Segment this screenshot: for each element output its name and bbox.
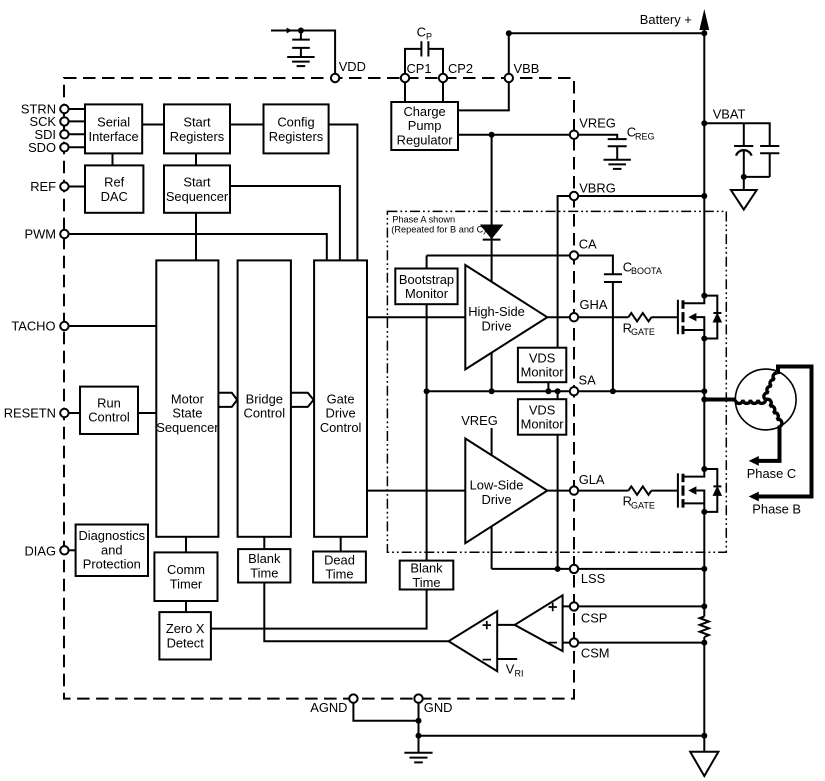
- wire VREG label stub (low-side supply): [461, 413, 498, 569]
- wire gate drive to low-side input: [367, 490, 465, 492]
- block Start Sequencer: [164, 165, 230, 212]
- wire bridge control to blank time: [263, 537, 265, 549]
- svg-text:P: P: [426, 31, 432, 41]
- node CSP: [570, 602, 608, 625]
- wire gate drive to high-side input: [367, 316, 465, 318]
- node VBB: [505, 61, 540, 82]
- motor winding phase B: [764, 373, 778, 400]
- junction dots GND: [416, 718, 708, 739]
- wire Phase C lead with arrow: [747, 426, 796, 482]
- wire CA to CBOOTA: [574, 256, 613, 275]
- diode body (Q1): [704, 296, 721, 339]
- svg-text:Timer: Timer: [170, 576, 203, 591]
- svg-text:VDS: VDS: [529, 350, 556, 365]
- svg-text:GATE: GATE: [631, 501, 655, 511]
- block Bootstrap Monitor: [395, 269, 457, 305]
- svg-text:VREG: VREG: [461, 413, 498, 428]
- svg-text:REG: REG: [635, 131, 655, 141]
- wire VREG from charge pump: [458, 134, 574, 136]
- svg-text:Time: Time: [250, 566, 278, 581]
- wire CSM line: [563, 642, 705, 644]
- wire zero x detect to phase blank time: [211, 590, 427, 629]
- capacitor CBOOTA: [604, 274, 622, 391]
- ground triangle (power): [690, 752, 718, 776]
- node VDD: [331, 59, 366, 82]
- svg-text:Drive: Drive: [481, 319, 511, 334]
- charge pump regulator U: [391, 102, 458, 150]
- block Blank Time phase: [400, 561, 454, 590]
- svg-text:Comm: Comm: [167, 562, 205, 577]
- svg-text:Regulator: Regulator: [397, 133, 454, 148]
- ground (GND): [404, 753, 432, 763]
- capacitor bulk ceramic: [760, 146, 779, 177]
- wire A1 output to A2 input: [497, 624, 515, 626]
- wire STRN lead: [64, 108, 85, 110]
- svg-text:Interface: Interface: [89, 129, 139, 144]
- junction dots sense lines: [701, 603, 707, 645]
- svg-text:Phase A shown: Phase A shown: [392, 215, 455, 225]
- block Ref DAC: [85, 165, 143, 212]
- pin SDI: [35, 127, 69, 142]
- svg-text:Pump: Pump: [408, 118, 442, 133]
- svg-text:CP2: CP2: [448, 61, 473, 76]
- block Comm Timer: [154, 552, 217, 601]
- wire GLA line with resistor RGATE: [547, 486, 677, 494]
- svg-text:Start: Start: [183, 175, 211, 190]
- wire caps common to ground: [741, 174, 770, 190]
- svg-text:SDO: SDO: [28, 140, 56, 155]
- wire CP1 stub: [404, 78, 406, 102]
- svg-text:DAC: DAC: [101, 189, 128, 204]
- svg-text:Charge: Charge: [403, 104, 445, 119]
- block Serial Interface: [85, 104, 142, 153]
- pin RESETN: [4, 406, 69, 421]
- wire VREG to CREG cap: [574, 135, 617, 139]
- wire rail below Q2: [703, 512, 705, 617]
- node CA: [570, 237, 597, 260]
- wire SCK lead: [64, 120, 85, 122]
- wire start registers to start sequencer: [195, 153, 197, 165]
- svg-text:Phase C: Phase C: [747, 466, 796, 481]
- wire rail to bottom ground: [703, 637, 705, 752]
- svg-text:Start: Start: [183, 115, 211, 130]
- wire bootstrap monitor / blank time vertical: [426, 256, 428, 561]
- node VBRG: [570, 181, 616, 201]
- svg-text:Drive: Drive: [481, 492, 511, 507]
- svg-text:High-Side: High-Side: [468, 304, 525, 319]
- svg-text:VBRG: VBRG: [579, 181, 616, 196]
- pin STRN: [21, 102, 69, 117]
- wire config registers to gate drive control: [329, 125, 358, 261]
- junction dots battery rail: [506, 30, 708, 36]
- node GLA: [570, 472, 605, 495]
- svg-text:Gate: Gate: [327, 391, 355, 406]
- wire GND to power ground rail: [419, 735, 705, 737]
- wire VDS monitor 2 to LSS: [557, 435, 559, 569]
- svg-text:SA: SA: [579, 373, 597, 388]
- wire DIAG lead: [64, 549, 75, 551]
- wire VRI reference: [497, 659, 523, 679]
- wire gate drive control to dead time: [340, 537, 342, 552]
- block Dead Time: [313, 552, 366, 583]
- label RGATE low side: [623, 494, 655, 511]
- wire VDS monitor 1 stubs: [548, 382, 557, 399]
- label CREG: [627, 125, 655, 142]
- svg-text:V: V: [506, 662, 515, 677]
- pin SCK: [29, 114, 68, 129]
- block Zero X Detect: [159, 612, 211, 659]
- wire PWM line to gate drive control: [64, 234, 326, 260]
- svg-text:Monitor: Monitor: [405, 286, 449, 301]
- Phase A label: [391, 215, 486, 235]
- block Run Control: [80, 387, 138, 434]
- junction dot bootstrap feed: [489, 132, 495, 138]
- motor winding phase C: [766, 399, 782, 426]
- wire run control to motor state sequencer: [138, 412, 156, 414]
- svg-text:Time: Time: [412, 575, 440, 590]
- svg-text:Config: Config: [277, 115, 314, 130]
- ground triangle (VBAT caps): [731, 190, 757, 210]
- svg-text:DIAG: DIAG: [24, 543, 56, 558]
- svg-text:CP1: CP1: [407, 61, 432, 76]
- svg-text:Control: Control: [88, 409, 130, 424]
- node GND: [414, 694, 452, 715]
- pin PWM: [24, 227, 68, 242]
- wire REF lead: [64, 186, 85, 188]
- svg-text:PWM: PWM: [24, 227, 56, 242]
- wire Phase B lead with arrow: [749, 367, 812, 517]
- wire comm timer to zero x detect: [185, 601, 187, 612]
- transistor Q2 low-side MOSFET: [677, 466, 707, 515]
- svg-text:Motor: Motor: [171, 391, 205, 406]
- wire SDO lead: [64, 146, 85, 148]
- svg-text:Control: Control: [320, 420, 362, 435]
- svg-text:GLA: GLA: [579, 472, 605, 487]
- svg-text:CA: CA: [579, 237, 597, 252]
- svg-text:Bridge: Bridge: [246, 391, 283, 406]
- svg-text:Monitor: Monitor: [521, 365, 565, 380]
- svg-text:LSS: LSS: [581, 571, 605, 586]
- resistor RSENSE: [700, 617, 709, 638]
- wire Battery+ rail: [509, 32, 705, 34]
- svg-text:RI: RI: [515, 669, 524, 679]
- motor lead (thick): [701, 397, 736, 403]
- block arrow MSS to Bridge: [218, 393, 237, 407]
- wire start registers to config registers: [230, 124, 264, 126]
- svg-text:RESETN: RESETN: [4, 406, 56, 421]
- pin REF: [30, 179, 68, 194]
- svg-text:Diagnostics: Diagnostics: [78, 528, 145, 543]
- svg-text:Blank: Blank: [248, 551, 281, 566]
- wire CSP line: [563, 605, 705, 607]
- wire CA line: [427, 255, 574, 257]
- svg-text:VREG: VREG: [579, 116, 616, 131]
- svg-text:Serial: Serial: [97, 115, 130, 130]
- svg-text:Bootstrap: Bootstrap: [399, 272, 454, 287]
- wire VDD supply feed with arrow: [271, 28, 335, 79]
- pin TACHO: [11, 319, 68, 334]
- motor M winding circle: [735, 369, 796, 430]
- svg-text:Control: Control: [244, 406, 286, 421]
- svg-text:REF: REF: [30, 179, 56, 194]
- node SA: [570, 373, 596, 396]
- wire serial interface to start registers: [142, 124, 164, 126]
- wire GND stub to ground: [418, 699, 420, 753]
- ground (VDD decoupling): [287, 57, 314, 66]
- wire CP2 stub: [442, 78, 444, 102]
- capacitor bulk electrolytic (polarized): [734, 146, 753, 177]
- wire start sequencer to motor state sequencer: [195, 213, 197, 261]
- svg-text:(Repeated for B and C): (Repeated for B and C): [391, 224, 486, 234]
- op-amp High-Side Drive: [465, 265, 547, 369]
- label CP: [417, 25, 432, 42]
- block Config Registers: [264, 104, 329, 153]
- block Diagnostics and Protection: [76, 525, 148, 577]
- svg-text:Zero X: Zero X: [166, 621, 205, 636]
- svg-text:Sequencer: Sequencer: [166, 189, 229, 204]
- block arrow Bridge to GDC: [291, 393, 314, 407]
- wire rail between FETs: [703, 339, 705, 470]
- svg-text:Drive: Drive: [326, 406, 356, 421]
- svg-text:Registers: Registers: [269, 129, 323, 144]
- node CP2: [439, 61, 473, 82]
- svg-text:Protection: Protection: [83, 557, 141, 572]
- junction dots SA line: [424, 388, 708, 394]
- op-amp Low-Side Drive: [465, 439, 547, 544]
- svg-text:AGND: AGND: [310, 700, 347, 715]
- svg-text:State: State: [172, 406, 202, 421]
- svg-text:VDS: VDS: [529, 402, 556, 417]
- block Motor State Sequencer: [156, 260, 219, 536]
- block Gate Drive Control: [314, 260, 367, 536]
- wire MSS to comm timer: [185, 537, 187, 553]
- svg-text:Detect: Detect: [167, 636, 205, 651]
- diode body (Q2): [704, 469, 721, 512]
- svg-text:CSM: CSM: [581, 646, 610, 661]
- svg-text:GATE: GATE: [631, 327, 655, 337]
- wire main power rail top segment: [703, 22, 705, 296]
- svg-text:Blank: Blank: [410, 561, 443, 576]
- wire serial interface to ref dac: [112, 153, 114, 165]
- node AGND: [310, 694, 357, 715]
- capacitor CP (charge pump): [405, 41, 443, 78]
- svg-text:Time: Time: [325, 567, 353, 582]
- pin DIAG: [24, 543, 68, 558]
- wire blank time to current amp output: [264, 583, 448, 642]
- capacitor VDD decoupling: [292, 31, 310, 58]
- Battery + arrow head: [699, 9, 709, 30]
- svg-text:Battery +: Battery +: [640, 12, 692, 27]
- node CSM: [570, 638, 610, 660]
- svg-text:Run: Run: [97, 396, 121, 411]
- node VREG: [570, 116, 616, 139]
- svg-text:CSP: CSP: [581, 611, 608, 626]
- svg-text:and: and: [101, 542, 123, 557]
- wire start sequencer to gate drive control: [230, 186, 340, 260]
- svg-text:TACHO: TACHO: [11, 319, 55, 334]
- block Bridge Control: [238, 260, 291, 536]
- wire RESETN lead: [64, 412, 80, 414]
- wire VBRG line: [558, 193, 708, 348]
- svg-text:BOOTA: BOOTA: [631, 266, 662, 276]
- wire high-side supply vertical (VREG to SA): [491, 135, 493, 392]
- wire charge pump to VBB: [458, 33, 509, 110]
- transistor Q1 high-side MOSFET: [677, 293, 707, 342]
- block VDS Monitor high: [518, 348, 566, 383]
- pin SDO: [28, 140, 69, 155]
- svg-text:Sequencer: Sequencer: [156, 420, 219, 435]
- svg-text:Phase B: Phase B: [752, 502, 801, 517]
- svg-text:Low-Side: Low-Side: [470, 478, 524, 493]
- node GHA: [570, 297, 608, 322]
- block VDS Monitor low: [518, 399, 566, 435]
- svg-text:VBB: VBB: [514, 61, 540, 76]
- label CBOOTA: [623, 259, 662, 276]
- op-amp current sense A2: [449, 611, 498, 671]
- wire GHA line with resistor RGATE: [547, 313, 677, 321]
- svg-text:GHA: GHA: [580, 297, 608, 312]
- Phase A dash-dot boundary box: [387, 211, 726, 552]
- svg-text:Monitor: Monitor: [521, 417, 565, 432]
- svg-text:C: C: [417, 25, 426, 40]
- block Start Registers: [164, 104, 230, 153]
- diode bootstrap: [481, 225, 502, 240]
- svg-text:GND: GND: [424, 700, 453, 715]
- svg-text:VDD: VDD: [339, 59, 366, 74]
- wire AGND stub: [353, 699, 418, 721]
- wire VBAT tap: [701, 120, 769, 146]
- svg-text:Dead: Dead: [324, 552, 355, 567]
- block Blank Time left: [238, 549, 290, 582]
- node CP1: [401, 61, 432, 82]
- junction dots LSS line: [555, 566, 708, 572]
- IC boundary dashed box: [64, 78, 574, 699]
- node LSS: [570, 565, 605, 586]
- svg-text:Registers: Registers: [170, 129, 224, 144]
- wire LSS line: [492, 568, 705, 570]
- ground (CREG): [604, 160, 631, 169]
- svg-text:Ref: Ref: [104, 175, 124, 190]
- wire SDI lead: [64, 133, 85, 135]
- label RGATE high side: [623, 320, 655, 337]
- wire TACHO lead: [64, 325, 156, 327]
- motor winding phase A: [735, 400, 765, 404]
- svg-text:VBAT: VBAT: [713, 107, 746, 122]
- capacitor CREG: [608, 139, 627, 160]
- wire SA line: [427, 390, 705, 392]
- op-amp current sense A1: [515, 595, 563, 651]
